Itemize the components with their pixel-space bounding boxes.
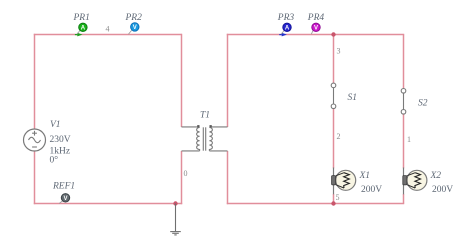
svg-text:S1: S1: [348, 93, 358, 103]
svg-text:V: V: [133, 25, 137, 31]
wire top-left net 4: [34, 34, 182, 36]
svg-text:A: A: [81, 26, 86, 32]
probe PR3 current arrow: [279, 34, 283, 36]
svg-text:0°: 0°: [50, 155, 59, 166]
junction node 3: [331, 32, 335, 36]
lamp X2: [403, 170, 427, 190]
wire left vertical upper: [34, 34, 36, 130]
wire secondary top vertical: [227, 34, 229, 127]
svg-text:PR1: PR1: [73, 13, 90, 23]
svg-text:PR3: PR3: [277, 13, 295, 23]
svg-text:PR4: PR4: [307, 13, 325, 23]
AC voltage source V1: [24, 129, 46, 151]
svg-text:230V: 230V: [50, 135, 71, 145]
ground: [170, 204, 181, 235]
svg-text:0: 0: [184, 169, 188, 178]
wire S2 branch top: [403, 35, 405, 89]
svg-text:S2: S2: [418, 99, 428, 109]
switch S1: [331, 83, 336, 109]
junction ground tap: [173, 201, 177, 205]
svg-text:PR2: PR2: [125, 13, 143, 23]
svg-text:3: 3: [337, 47, 341, 56]
probe REF1: [59, 194, 69, 204]
svg-text:V: V: [314, 26, 318, 32]
wire bottom-right net 5: [227, 203, 404, 205]
svg-text:V1: V1: [50, 120, 61, 130]
wire S1 to lamp X1 net 2: [333, 108, 335, 168]
wire primary top vertical: [181, 34, 183, 127]
svg-text:4: 4: [106, 25, 110, 34]
svg-text:X1: X1: [359, 171, 371, 181]
probe PR2: [128, 23, 139, 35]
wire left vertical lower: [34, 151, 36, 205]
probe PR1: [77, 23, 87, 34]
svg-text:5: 5: [336, 193, 340, 202]
transformer T1: [182, 125, 228, 151]
svg-text:X2: X2: [430, 171, 442, 181]
svg-text:A: A: [285, 26, 290, 32]
svg-text:2: 2: [337, 132, 341, 141]
wire S1 branch top: [333, 35, 335, 84]
wire top-right net 3: [227, 34, 404, 36]
probe PR3: [281, 23, 291, 34]
svg-text:T1: T1: [200, 111, 210, 121]
switch S2: [401, 89, 406, 115]
svg-text:V: V: [63, 196, 67, 202]
svg-text:1: 1: [407, 135, 411, 144]
wire secondary bottom vertical: [227, 151, 229, 204]
wire primary bottom vertical net 0: [181, 151, 183, 204]
svg-text:REF1: REF1: [52, 182, 75, 192]
wire bottom-left net 0: [34, 203, 182, 205]
probe PR4: [311, 23, 320, 34]
lamp X1: [332, 170, 356, 190]
svg-text:200V: 200V: [361, 185, 382, 195]
svg-text:200V: 200V: [432, 185, 453, 195]
probe PR1 current arrow: [75, 34, 79, 36]
junction node 5: [331, 201, 335, 205]
wire S2 to lamp X2 net 1: [403, 114, 405, 169]
